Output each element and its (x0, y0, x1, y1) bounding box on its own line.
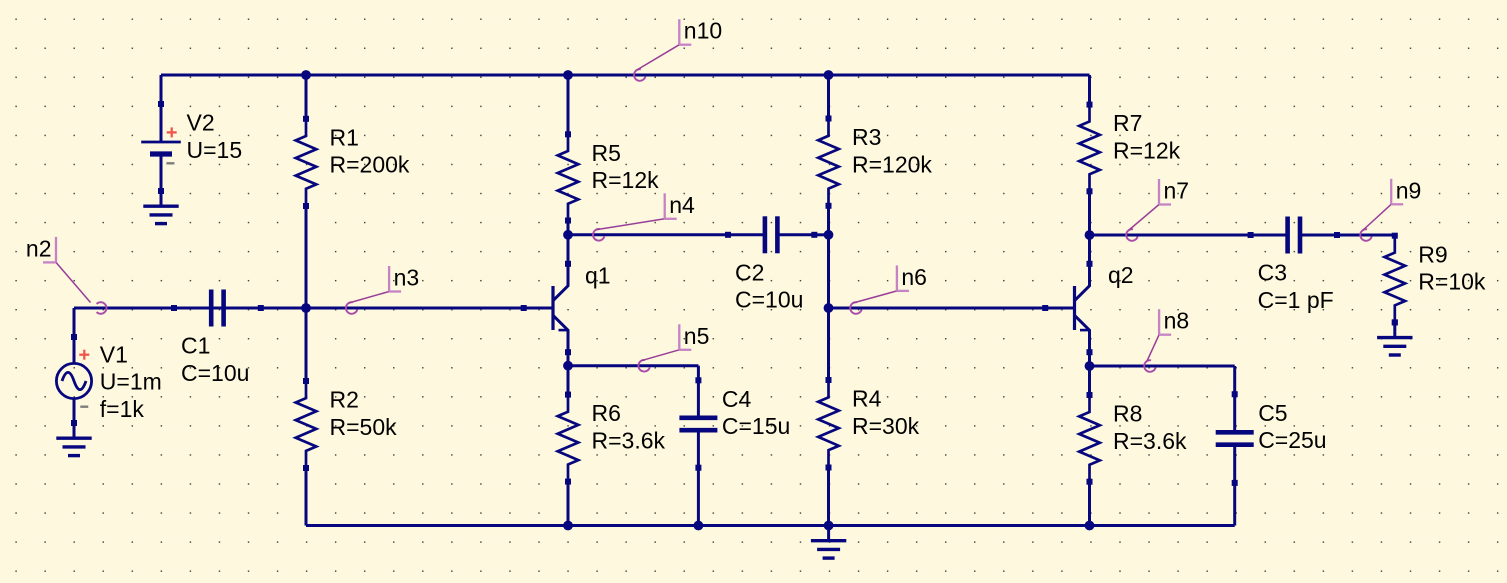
ground R9 (1377, 319, 1412, 355)
wire R2 top stub (305, 308, 308, 381)
node n5 (638, 323, 709, 372)
svg-text:R=3.6k: R=3.6k (1113, 428, 1187, 454)
wire n5 row emitter to C4 (568, 364, 698, 367)
svg-text:R=120k: R=120k (852, 151, 932, 177)
junction n8 emitter (1085, 361, 1095, 371)
wire V2 stub (160, 75, 163, 104)
wire R5 bottom stub (567, 221, 570, 235)
svg-text:U=1m: U=1m (100, 369, 162, 395)
wire R5 top stub (567, 75, 570, 134)
svg-text:n2: n2 (26, 235, 52, 261)
svg-text:C=10u: C=10u (181, 360, 249, 386)
voltage source V2 battery (141, 101, 242, 194)
svg-text:V1: V1 (100, 341, 128, 367)
node n4 (593, 192, 695, 241)
wire R6 bottom stub (567, 482, 570, 526)
svg-text:C=1 pF: C=1 pF (1258, 287, 1334, 313)
junction bottom ground (824, 521, 834, 531)
svg-text:f=1k: f=1k (100, 396, 145, 422)
resistor R9 (1385, 233, 1486, 326)
resistor R4 (818, 377, 919, 471)
V2 plus sign (167, 127, 177, 137)
wire q1 emitter stub (567, 352, 570, 366)
node n2 (26, 235, 107, 313)
V1 minus sign (80, 406, 88, 408)
node n6 (850, 264, 927, 314)
wire n8 row emitter to C5 (1090, 365, 1235, 368)
transistor q2 (1042, 261, 1133, 355)
wire R1 bottom to input row (305, 206, 308, 308)
V1 plus sign (79, 350, 89, 360)
wire R7 top stub (1088, 75, 1091, 105)
svg-text:n9: n9 (1396, 177, 1422, 203)
node n10 (634, 18, 722, 81)
node n3 (346, 265, 419, 314)
svg-text:R5: R5 (592, 140, 621, 166)
wire top rail n10 (161, 74, 1090, 77)
svg-text:R=12k: R=12k (592, 167, 660, 193)
svg-text:R1: R1 (330, 124, 359, 150)
capacitor C5 (1216, 391, 1327, 486)
wire n7 row q2 collector to C3 (1090, 234, 1251, 237)
wire q2 emitter stub (1088, 352, 1091, 366)
wire C5 top stub (1233, 366, 1236, 394)
svg-text:R4: R4 (852, 386, 882, 412)
wire C5 bottom stub (1233, 483, 1236, 526)
node n7 (1126, 178, 1189, 241)
svg-text:C=15u: C=15u (722, 413, 790, 439)
svg-text:C2: C2 (735, 259, 764, 285)
svg-text:C5: C5 (1258, 400, 1287, 426)
resistor R7 (1079, 102, 1180, 195)
wire bottom rail (306, 524, 1235, 527)
svg-text:n6: n6 (901, 264, 927, 290)
wire C4 top stub (697, 366, 700, 381)
wire R6 top stub (567, 366, 570, 395)
wire n4 row q1 collector to C2 (568, 233, 728, 236)
svg-text:R=50k: R=50k (330, 414, 398, 440)
svg-text:U=15: U=15 (187, 137, 243, 163)
wire V1 stub (73, 308, 76, 337)
svg-text:V2: V2 (187, 110, 215, 136)
resistor R8 (1079, 392, 1187, 485)
resistor R3 (818, 116, 932, 209)
wire R1 top stub (305, 75, 308, 119)
wire R8 top stub (1088, 366, 1091, 395)
junction top R3 (824, 70, 834, 80)
V2 minus sign (166, 162, 174, 164)
node n9 (1360, 177, 1421, 241)
transistor q1 (521, 261, 611, 355)
wire q1 collector stub (567, 235, 570, 264)
svg-text:n10: n10 (684, 18, 722, 44)
wire C2 to R3 column (814, 233, 828, 236)
wire R4 bottom stub (827, 468, 830, 526)
svg-text:R7: R7 (1113, 110, 1142, 136)
capacitor C2 (725, 216, 817, 312)
svg-text:n4: n4 (669, 192, 695, 218)
svg-text:n3: n3 (394, 265, 420, 291)
svg-text:C4: C4 (722, 386, 752, 412)
svg-text:C3: C3 (1258, 260, 1287, 286)
svg-text:n7: n7 (1164, 178, 1190, 204)
ac source V1 (56, 334, 161, 426)
svg-text:n8: n8 (1164, 308, 1190, 334)
junction bottom C4 (694, 521, 704, 531)
wire R7 bottom stub (1088, 191, 1091, 235)
svg-text:q2: q2 (1108, 262, 1134, 288)
capacitor C1 (171, 290, 264, 386)
resistor R6 (558, 392, 666, 485)
resistor R2 (296, 378, 397, 471)
wire R8 bottom stub (1088, 482, 1091, 526)
svg-text:R3: R3 (852, 124, 881, 150)
svg-text:n5: n5 (684, 323, 710, 349)
wire R3 top stub (827, 75, 830, 119)
junction n6 base (824, 303, 834, 313)
junction top R1 (301, 70, 311, 80)
wire R9 stub (1393, 234, 1396, 238)
wire q2 collector stub (1088, 235, 1091, 264)
svg-text:R=200k: R=200k (330, 152, 410, 178)
junction n5 emitter (563, 361, 573, 371)
svg-text:R8: R8 (1113, 401, 1142, 427)
ground mid (811, 523, 846, 559)
wire R3 bottom stub (827, 206, 830, 235)
svg-text:R=30k: R=30k (852, 413, 920, 439)
junction bottom R6 (563, 521, 573, 531)
svg-text:R6: R6 (592, 400, 621, 426)
svg-text:R=3.6k: R=3.6k (592, 428, 666, 454)
junction n4 (563, 230, 573, 240)
wire C3 to R9 (1337, 234, 1395, 237)
svg-text:q1: q1 (585, 263, 611, 289)
capacitor C3 (1248, 217, 1340, 313)
ground V2 (143, 188, 178, 224)
wire n6 row to q2 base (829, 307, 1046, 310)
node n8 (1144, 308, 1189, 372)
svg-text:C1: C1 (181, 333, 210, 359)
svg-text:R=10k: R=10k (1418, 269, 1486, 295)
ground V1 (56, 420, 91, 456)
wire input row n2-n3 to q1 base (74, 307, 524, 310)
junction bottom R8 (1085, 521, 1095, 531)
junction n3 base (301, 303, 311, 313)
junction top R5 (563, 70, 573, 80)
svg-text:C=25u: C=25u (1258, 427, 1326, 453)
wire R4 column through n6 (827, 235, 830, 380)
capacitor C4 (679, 377, 790, 470)
svg-text:R9: R9 (1418, 241, 1447, 267)
svg-text:R2: R2 (330, 387, 359, 413)
svg-text:C=10u: C=10u (735, 287, 803, 313)
junction C2 R3 (824, 230, 834, 240)
svg-text:R=12k: R=12k (1113, 138, 1181, 164)
resistor R1 (296, 116, 410, 209)
wire C4 bottom stub (697, 468, 700, 526)
resistor R5 (558, 131, 659, 223)
wire R2 bottom stub (305, 468, 308, 526)
junction n7 (1085, 230, 1095, 240)
